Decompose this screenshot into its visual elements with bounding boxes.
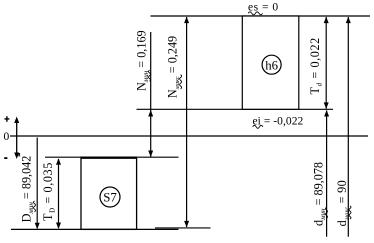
label T_d = 0,022	[308, 37, 324, 94]
plus-minus double arrow	[16, 119, 18, 157]
svg-text:es = 0: es = 0	[248, 2, 279, 14]
D_min dimension line	[36, 138, 38, 229]
svg-text:h6: h6	[265, 58, 278, 72]
label N_min = 0,169	[135, 30, 151, 91]
shaft tolerance zone h6 box	[242, 16, 298, 109]
d_min dimension line	[326, 111, 328, 237]
ei level line (bottom of shaft field)	[137, 108, 334, 110]
N_min dimension line	[150, 32, 152, 157]
plus label	[4, 116, 9, 121]
svg-text:TD = 0,035: TD = 0,035	[41, 162, 57, 221]
d_min bottom short line	[155, 227, 211, 229]
D_max level line (top of hole field)	[45, 156, 179, 158]
D_min bottom line	[11, 228, 179, 230]
wavy underline under ei	[253, 125, 263, 128]
svg-text:Nмин = 0,169: Nмин = 0,169	[135, 30, 151, 91]
svg-text:Dмин = 89,042: Dмин = 89,042	[20, 156, 36, 223]
minus label	[4, 157, 7, 159]
svg-text:Nмакс = 0,249: Nмакс = 0,249	[166, 36, 182, 98]
d_max dimension line	[347, 17, 349, 237]
svg-text:S7: S7	[103, 191, 117, 205]
label T_D = 0,035	[41, 162, 57, 221]
N_max dimension line	[186, 17, 188, 227]
svg-text:dмин = 89,078: dмин = 89,078	[312, 162, 328, 226]
svg-text:0: 0	[4, 131, 10, 143]
label N_max = 0,249	[166, 36, 182, 98]
S7 bubble	[100, 187, 120, 207]
S7 box thick top edge	[81, 156, 137, 158]
T_d dimension line	[325, 17, 327, 109]
zero line	[10, 135, 368, 137]
svg-text:dмакс = 90: dмакс = 90	[335, 180, 351, 226]
h6 bubble	[262, 55, 281, 74]
label d_min = 89,078	[312, 162, 328, 226]
stray mark	[18, 153, 20, 156]
hole tolerance zone S7 box	[81, 158, 137, 230]
wavy underline under es	[248, 12, 262, 15]
T_D dimension line	[58, 159, 60, 228]
label D_min = 89,042	[20, 156, 36, 223]
label d_max = 90	[335, 180, 351, 226]
es=0 level line (top of shaft field)	[151, 15, 371, 17]
svg-text:Td = 0,022: Td = 0,022	[308, 37, 324, 94]
